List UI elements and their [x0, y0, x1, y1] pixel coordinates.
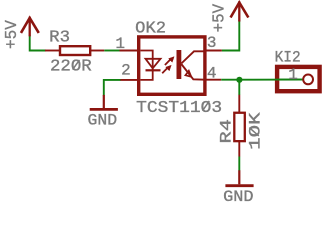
light arrow 1	[165, 57, 174, 65]
slashed zero in 10K	[249, 128, 258, 136]
pin 2 lead	[120, 79, 139, 81]
resistor R3	[45, 46, 104, 55]
pin 4 lead	[205, 79, 221, 81]
ground right	[225, 170, 253, 185]
wire R3 to pin 1	[104, 50, 120, 52]
emitter line with arrow	[181, 64, 205, 80]
svg-text:GND: GND	[88, 112, 118, 130]
svg-text:KI2: KI2	[275, 48, 301, 66]
svg-text:GND: GND	[223, 188, 253, 205]
svg-text:4: 4	[207, 65, 217, 83]
svg-text:2: 2	[121, 62, 131, 80]
svg-text:R4: R4	[217, 119, 235, 144]
KI2 pin circle	[303, 75, 313, 85]
wire R4 to GND right	[238, 157, 240, 171]
pin 3 lead	[205, 50, 222, 52]
pin 1 lead	[120, 50, 139, 52]
svg-text:1: 1	[115, 35, 125, 53]
supply +5V left arrow	[22, 18, 38, 35]
resistor R4	[234, 95, 245, 157]
ground left	[90, 95, 118, 110]
junction	[236, 77, 242, 83]
wire pin 3 to +5V right	[222, 20, 239, 51]
light arrow 2	[162, 65, 171, 73]
svg-text:1OK: 1OK	[247, 112, 265, 150]
svg-text:OK2: OK2	[135, 19, 166, 38]
phototransistor base bar	[177, 50, 182, 79]
slashed zero in TCST1103	[203, 101, 210, 111]
svg-text:R3: R3	[49, 28, 70, 47]
svg-text:+5V: +5V	[3, 19, 22, 49]
wire pin 2 to GND left	[104, 80, 121, 96]
wire +5V left to R3	[30, 35, 46, 51]
supply +5V right arrow	[231, 3, 248, 21]
svg-text:3: 3	[207, 34, 217, 52]
collector line	[181, 51, 205, 63]
wire pin 4 to KI2	[221, 79, 302, 81]
svg-text:1: 1	[288, 66, 298, 84]
wire into KI2 over border	[275, 79, 303, 81]
optocoupler OK2 box	[139, 37, 205, 94]
slashed zero in 220R	[73, 60, 80, 70]
connector KI2 box	[277, 67, 320, 91]
svg-text:+5V: +5V	[210, 3, 229, 32]
svg-text:22OR: 22OR	[50, 58, 92, 77]
LED inside OK2	[141, 51, 161, 80]
wire junction to R4	[238, 80, 240, 95]
